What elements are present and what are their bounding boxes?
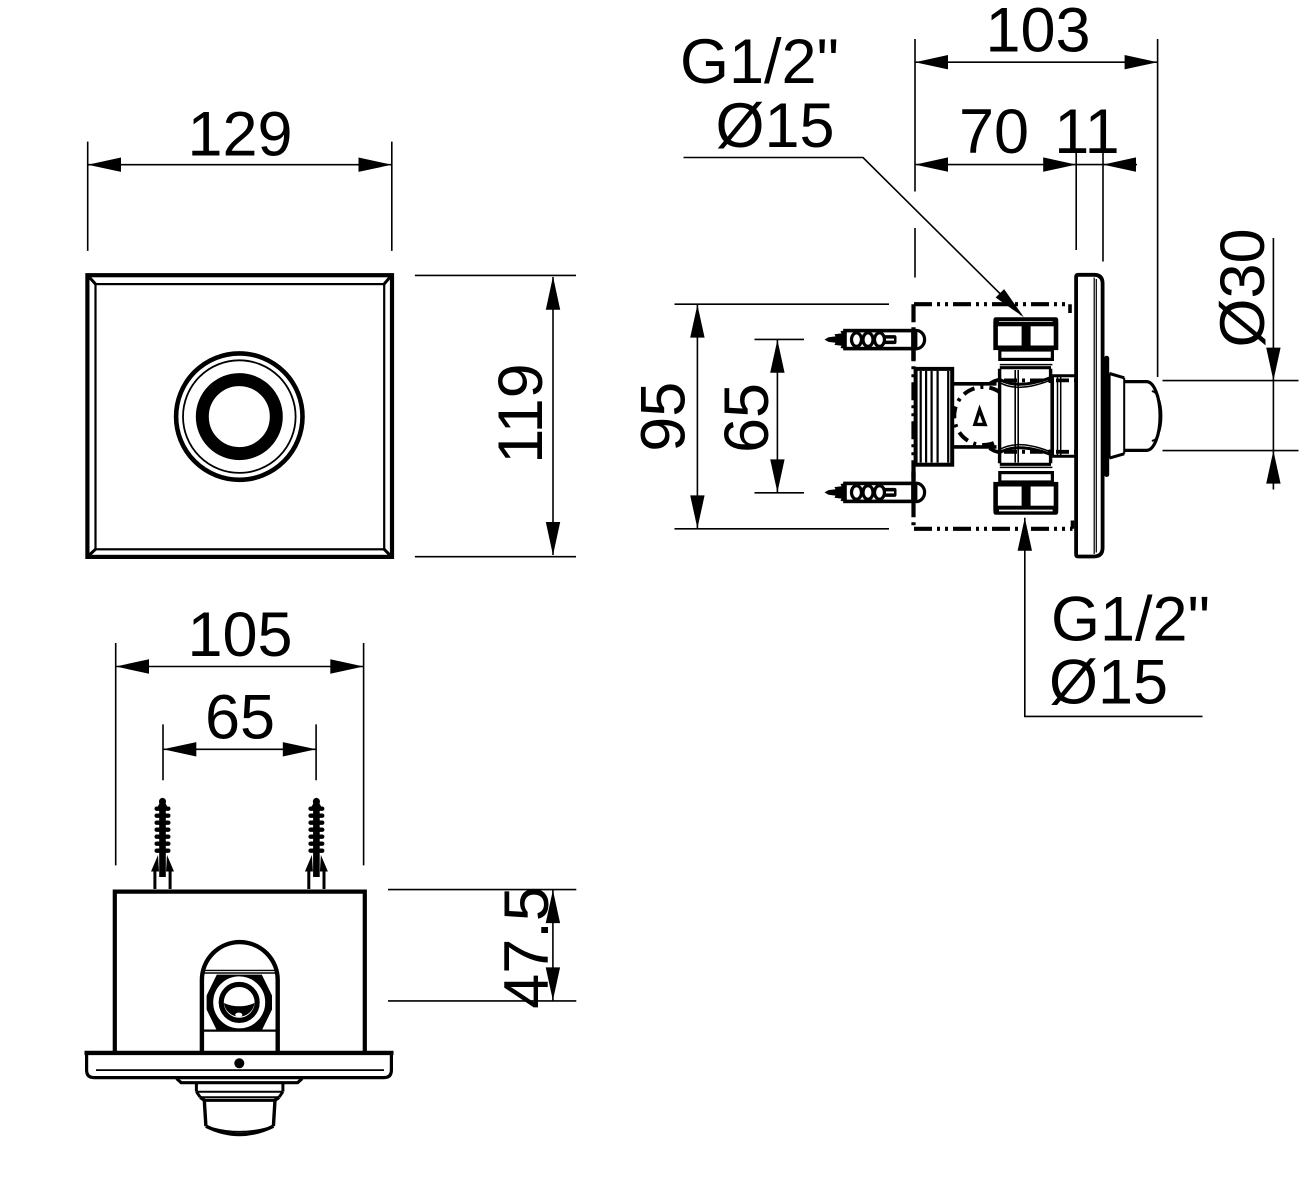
hex nut bore white dot: [235, 1013, 242, 1017]
through-wall sleeve: [1052, 376, 1076, 457]
bottom fitting collar: [1000, 473, 1053, 482]
arch top lines: [204, 970, 277, 973]
svg-text:Ø15: Ø15: [1049, 648, 1168, 718]
dimension 65 side line: [776, 339, 778, 492]
svg-text:G1/2": G1/2": [1051, 584, 1210, 654]
top fitting collar: [1000, 350, 1053, 359]
dimension diameter 30 arrowheads: [1266, 348, 1280, 484]
ribbed adjustment block: [916, 369, 953, 465]
dimension 129 extension lines: [88, 142, 392, 251]
svg-text:119: 119: [486, 363, 556, 463]
dimension 65 bottom arrowheads: [163, 742, 316, 756]
pipe column white mask: [998, 372, 1052, 460]
dimension 47.5 line: [552, 890, 554, 1001]
wall box dash-dot outline: [914, 304, 1073, 529]
face plate bevel square: [96, 284, 385, 549]
bottom flare curves: [990, 445, 1052, 455]
top flare curves: [990, 377, 1052, 387]
wall anchor screw bottom (side view): [825, 482, 925, 503]
dimension 129 arrowheads: [88, 158, 392, 172]
escutcheon plate face lines: [1094, 278, 1096, 555]
push button dark ring: [202, 380, 276, 454]
button step 1: [196, 1083, 283, 1098]
bottom fitting neck lines: [1000, 466, 1053, 468]
dimension 47.5 extension lines: [388, 890, 576, 1001]
button lip (top view): [177, 1079, 303, 1083]
valve body section lines: [952, 384, 996, 447]
bottom fitting cap: [993, 508, 1058, 515]
svg-text:11: 11: [1054, 97, 1119, 167]
escutcheon plate edge (top view): [85, 1053, 394, 1078]
dimension 119 line: [552, 277, 554, 555]
hole centerlines through wall: [1004, 380, 1076, 451]
anchor screw left (top view): [151, 798, 174, 890]
dimension 105 arrowheads: [116, 659, 364, 673]
button flange ring (side view): [1104, 356, 1109, 477]
flow direction triangle: [975, 410, 985, 425]
hex nut bore: [224, 987, 255, 1018]
svg-text:95: 95: [629, 382, 699, 452]
button cylinder (top view): [200, 1097, 279, 1134]
label G1/2 Ø15 bottom leader line: [1025, 518, 1203, 717]
dimension 105 line: [116, 666, 364, 668]
plate screw hole dot: [234, 1058, 244, 1068]
escutcheon plate (side view): [1076, 275, 1103, 557]
wall box left edge long dashes at screw heads: [911, 330, 915, 503]
pipe outer vertical lines: [1000, 369, 1051, 464]
wall anchor screw top (side view): [825, 329, 925, 350]
svg-text:G1/2": G1/2": [680, 27, 839, 97]
svg-text:65: 65: [712, 383, 782, 453]
anchor screw right (top view): [305, 798, 328, 890]
arch bottom line: [204, 1029, 277, 1031]
hex nut (top view): [207, 975, 272, 1031]
valve body box (top view): [115, 892, 365, 1053]
hex nut bore lower shadow: [224, 1003, 255, 1017]
dimension 95 extension lines: [675, 304, 890, 529]
connection arch (top view): [202, 942, 278, 1053]
dimension diameter 30 line: [1272, 238, 1274, 490]
flow direction dash-dot circle: [948, 380, 1019, 451]
svg-text:Ø15: Ø15: [715, 91, 834, 161]
dimension 95 arrowheads: [690, 305, 704, 529]
dimension 129 line: [88, 164, 392, 166]
svg-text:129: 129: [187, 99, 292, 169]
push button cylinder (side view): [1124, 382, 1161, 451]
dimension 65 side extension lines: [755, 339, 805, 492]
top fitting cap: [993, 317, 1058, 324]
dimension diameter 30 extension lines: [1163, 381, 1299, 451]
svg-text:47.5: 47.5: [492, 886, 562, 1009]
dimension 119 extension lines: [415, 275, 576, 556]
dimension 105 extension lines: [116, 643, 364, 865]
svg-text:65: 65: [205, 682, 275, 752]
svg-text:70: 70: [959, 97, 1029, 167]
dimension 65 bottom line: [163, 748, 316, 750]
top fitting neck lines: [1000, 364, 1053, 366]
svg-text:105: 105: [187, 600, 292, 670]
push button outer circle: [176, 353, 302, 479]
dimension 103 extension lines: [915, 39, 1158, 377]
dimension 70 and 11 line: [915, 164, 1137, 166]
svg-text:103: 103: [985, 0, 1090, 66]
hex nut white ring: [216, 979, 262, 1025]
push button cone (side view): [1109, 374, 1124, 459]
pipe inner vertical lines: [1015, 370, 1018, 463]
face plate outer square: [87, 275, 392, 557]
dimension 70 and 11 arrowheads: [915, 157, 1136, 171]
dimension 70 and 11 extension lines: [1076, 139, 1103, 262]
dimension 103 line: [915, 61, 1158, 63]
dimension 65 side arrowheads: [770, 340, 784, 493]
svg-text:Ø30: Ø30: [1208, 228, 1278, 347]
label G1/2 top leader line: [684, 158, 1022, 316]
push button middle circle: [183, 360, 296, 473]
dimension 47.5 arrowheads: [546, 890, 560, 1000]
label G1/2 Ø15 bottom leader arrowhead: [1018, 518, 1032, 551]
top fitting hex nut: [996, 324, 1056, 348]
hex nut inner dark ring: [221, 984, 257, 1020]
dimension 65 bottom extension lines: [163, 724, 316, 780]
bottom fitting hex nut: [996, 484, 1056, 508]
label G1/2 top leader arrowhead: [996, 289, 1024, 317]
face plate bevel corner diagonals: [88, 276, 390, 556]
dimension 103 arrowheads: [915, 55, 1158, 69]
dimension 95 line: [696, 304, 698, 529]
dimension 119 arrowheads: [546, 276, 560, 555]
wall box right corner bits: [1070, 304, 1073, 529]
